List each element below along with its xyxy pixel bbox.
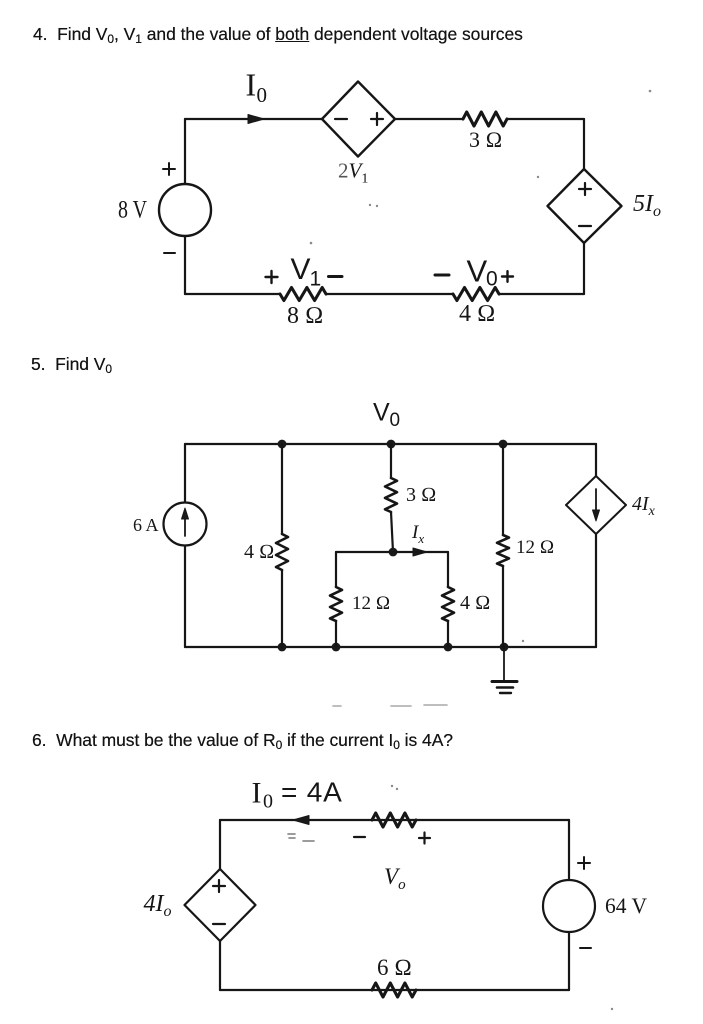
voltage source 64V (circle) — [543, 880, 595, 932]
resistor 6 ohm (bottom) — [372, 983, 416, 997]
wire: bottom middle — [326, 293, 453, 295]
svg-text:12 Ω: 12 Ω — [516, 537, 554, 558]
dependent voltage source 4Io (diamond) — [185, 869, 256, 941]
wire: right 12ohm branch upper — [502, 444, 504, 535]
wire: 12ohm sub-branch lower — [335, 621, 337, 647]
resistor 12 ohm (sub-branch) — [330, 587, 342, 621]
plus sign above 64V — [578, 857, 590, 869]
plus sign inside 2V1 — [371, 113, 383, 125]
wire: 4ohm sub-branch lower — [447, 621, 449, 647]
svg-text:4Io: 4Io — [144, 891, 172, 920]
ground — [503, 647, 505, 681]
wire: bottom rail — [220, 989, 569, 991]
faint scan specks — [310, 90, 652, 1011]
svg-text:V0: V0 — [467, 254, 498, 291]
wire: right vertical upper — [568, 820, 570, 880]
svg-text:Ix: Ix — [411, 522, 424, 546]
svg-text:4Ix: 4Ix — [632, 493, 656, 519]
plus sign inside 4Io — [213, 880, 225, 892]
node dot C — [499, 440, 508, 449]
wire: top mid (diamond to 3ohm) — [395, 118, 463, 120]
label - V0 + (overlay) — [435, 274, 449, 277]
wire: middle horizontal — [336, 551, 448, 553]
stray scan marks under circuit 5 — [333, 705, 447, 706]
svg-text:6 A: 6 A — [133, 515, 159, 535]
svg-text:I0= 4A: I0= 4A — [252, 777, 343, 813]
wire: 4ohm branch upper — [281, 444, 283, 534]
wire: far-right vertical lower — [595, 534, 597, 647]
wire: top-right horizontal — [507, 118, 584, 120]
svg-text:6 Ω: 6 Ω — [377, 955, 412, 980]
wire: left vertical lower — [219, 941, 221, 990]
svg-text:5Io: 5Io — [633, 191, 661, 220]
svg-text:2V1: 2V1 — [338, 159, 368, 187]
resistor 4 ohm (bottom right) — [453, 288, 499, 301]
wire: 3ohm branch upper — [390, 444, 392, 478]
wire: bottom-left horizontal — [185, 293, 280, 295]
wire: left vertical upper — [184, 119, 186, 184]
wire: bottom-right horizontal — [499, 293, 584, 295]
dependent current source 4Ix (diamond) — [566, 476, 626, 534]
problem 5 heading — [31, 354, 112, 375]
arrow inside 4Ix source — [595, 489, 597, 512]
svg-text:3 Ω: 3 Ω — [469, 127, 502, 152]
minus sign inside 5Io — [579, 225, 591, 227]
wire: right vertical lower — [583, 243, 585, 294]
wire: left vertical lower — [184, 546, 186, 647]
svg-text:4 Ω: 4 Ω — [244, 541, 274, 563]
minus sign left of Ro — [354, 836, 365, 838]
arrow inside 6A source — [184, 517, 186, 536]
wire: right 12ohm branch lower — [502, 566, 504, 647]
minus sign below 8V source — [164, 252, 175, 254]
node dot B — [387, 440, 396, 449]
resistor 4 ohm (sub-branch) — [442, 587, 454, 621]
current arrow I0 head — [248, 115, 264, 124]
wire: top-left horizontal with current arrow — [185, 118, 322, 120]
node dot H (center) — [389, 548, 398, 557]
svg-text:64 V: 64 V — [605, 893, 647, 918]
wire: 4ohm sub-branch upper — [447, 552, 449, 587]
current arrow Ix head — [413, 548, 427, 556]
problem 4 heading — [33, 24, 523, 45]
current arrow I0 head (pointing left) — [293, 816, 309, 825]
wire: 4ohm branch lower — [281, 570, 283, 647]
problem 6 heading — [32, 730, 453, 751]
svg-text:V1: V1 — [291, 253, 322, 291]
node dot D — [278, 643, 287, 652]
wire: left vertical lower — [184, 236, 186, 294]
svg-text:8 V: 8 V — [118, 197, 147, 224]
svg-text:4 Ω: 4 Ω — [460, 592, 490, 614]
node dot A — [278, 440, 287, 449]
minus sign below 64V — [580, 947, 591, 949]
minus sign inside 2V1 — [335, 118, 347, 120]
svg-text:Vo: Vo — [384, 864, 406, 893]
plus sign above 8V source — [163, 163, 175, 175]
wire: 3ohm to center node — [391, 512, 393, 552]
svg-text:12 Ω: 12 Ω — [352, 593, 390, 614]
resistor 12 ohm (right branch) — [497, 535, 509, 566]
svg-text:4 Ω: 4 Ω — [459, 301, 495, 327]
resistor 3 ohm — [463, 112, 507, 126]
dependent voltage source 2V1 (diamond) — [322, 82, 395, 157]
wire: left vertical upper — [184, 444, 186, 502]
label + V1 - (overlay) — [266, 271, 278, 283]
voltage source 8V (circle) — [159, 184, 211, 236]
node dot G (ground node) — [500, 643, 509, 652]
node dot F — [444, 643, 453, 652]
wire: 12ohm sub-branch upper — [335, 552, 337, 587]
svg-text:3 Ω: 3 Ω — [406, 484, 436, 506]
resistor Ro (top) — [372, 813, 416, 827]
resistor 8 ohm (bottom left) — [280, 288, 326, 301]
svg-text:I0: I0 — [246, 67, 268, 108]
wire: bottom rail — [185, 646, 596, 648]
wire: right vertical upper — [583, 119, 585, 169]
resistor 4 ohm (left branch) — [276, 534, 288, 570]
current source 6A (circle) — [164, 503, 207, 546]
wire: right vertical lower — [568, 932, 570, 990]
resistor 3 ohm (middle) — [385, 478, 397, 512]
faint pencil marks — [288, 834, 314, 841]
wire: left vertical upper — [219, 820, 221, 869]
node dot E — [332, 643, 341, 652]
wire: top rail with left current arrow — [220, 819, 569, 821]
svg-text:V0: V0 — [373, 399, 400, 432]
wire: far-right vertical upper — [595, 444, 597, 476]
svg-text:8 Ω: 8 Ω — [287, 303, 323, 329]
plus sign right of Ro — [419, 833, 430, 844]
dependent voltage source 5Io (diamond) — [548, 169, 622, 243]
minus sign inside 4Io — [213, 923, 225, 925]
plus sign inside 5Io — [579, 183, 591, 195]
wire: top rail — [185, 443, 596, 445]
